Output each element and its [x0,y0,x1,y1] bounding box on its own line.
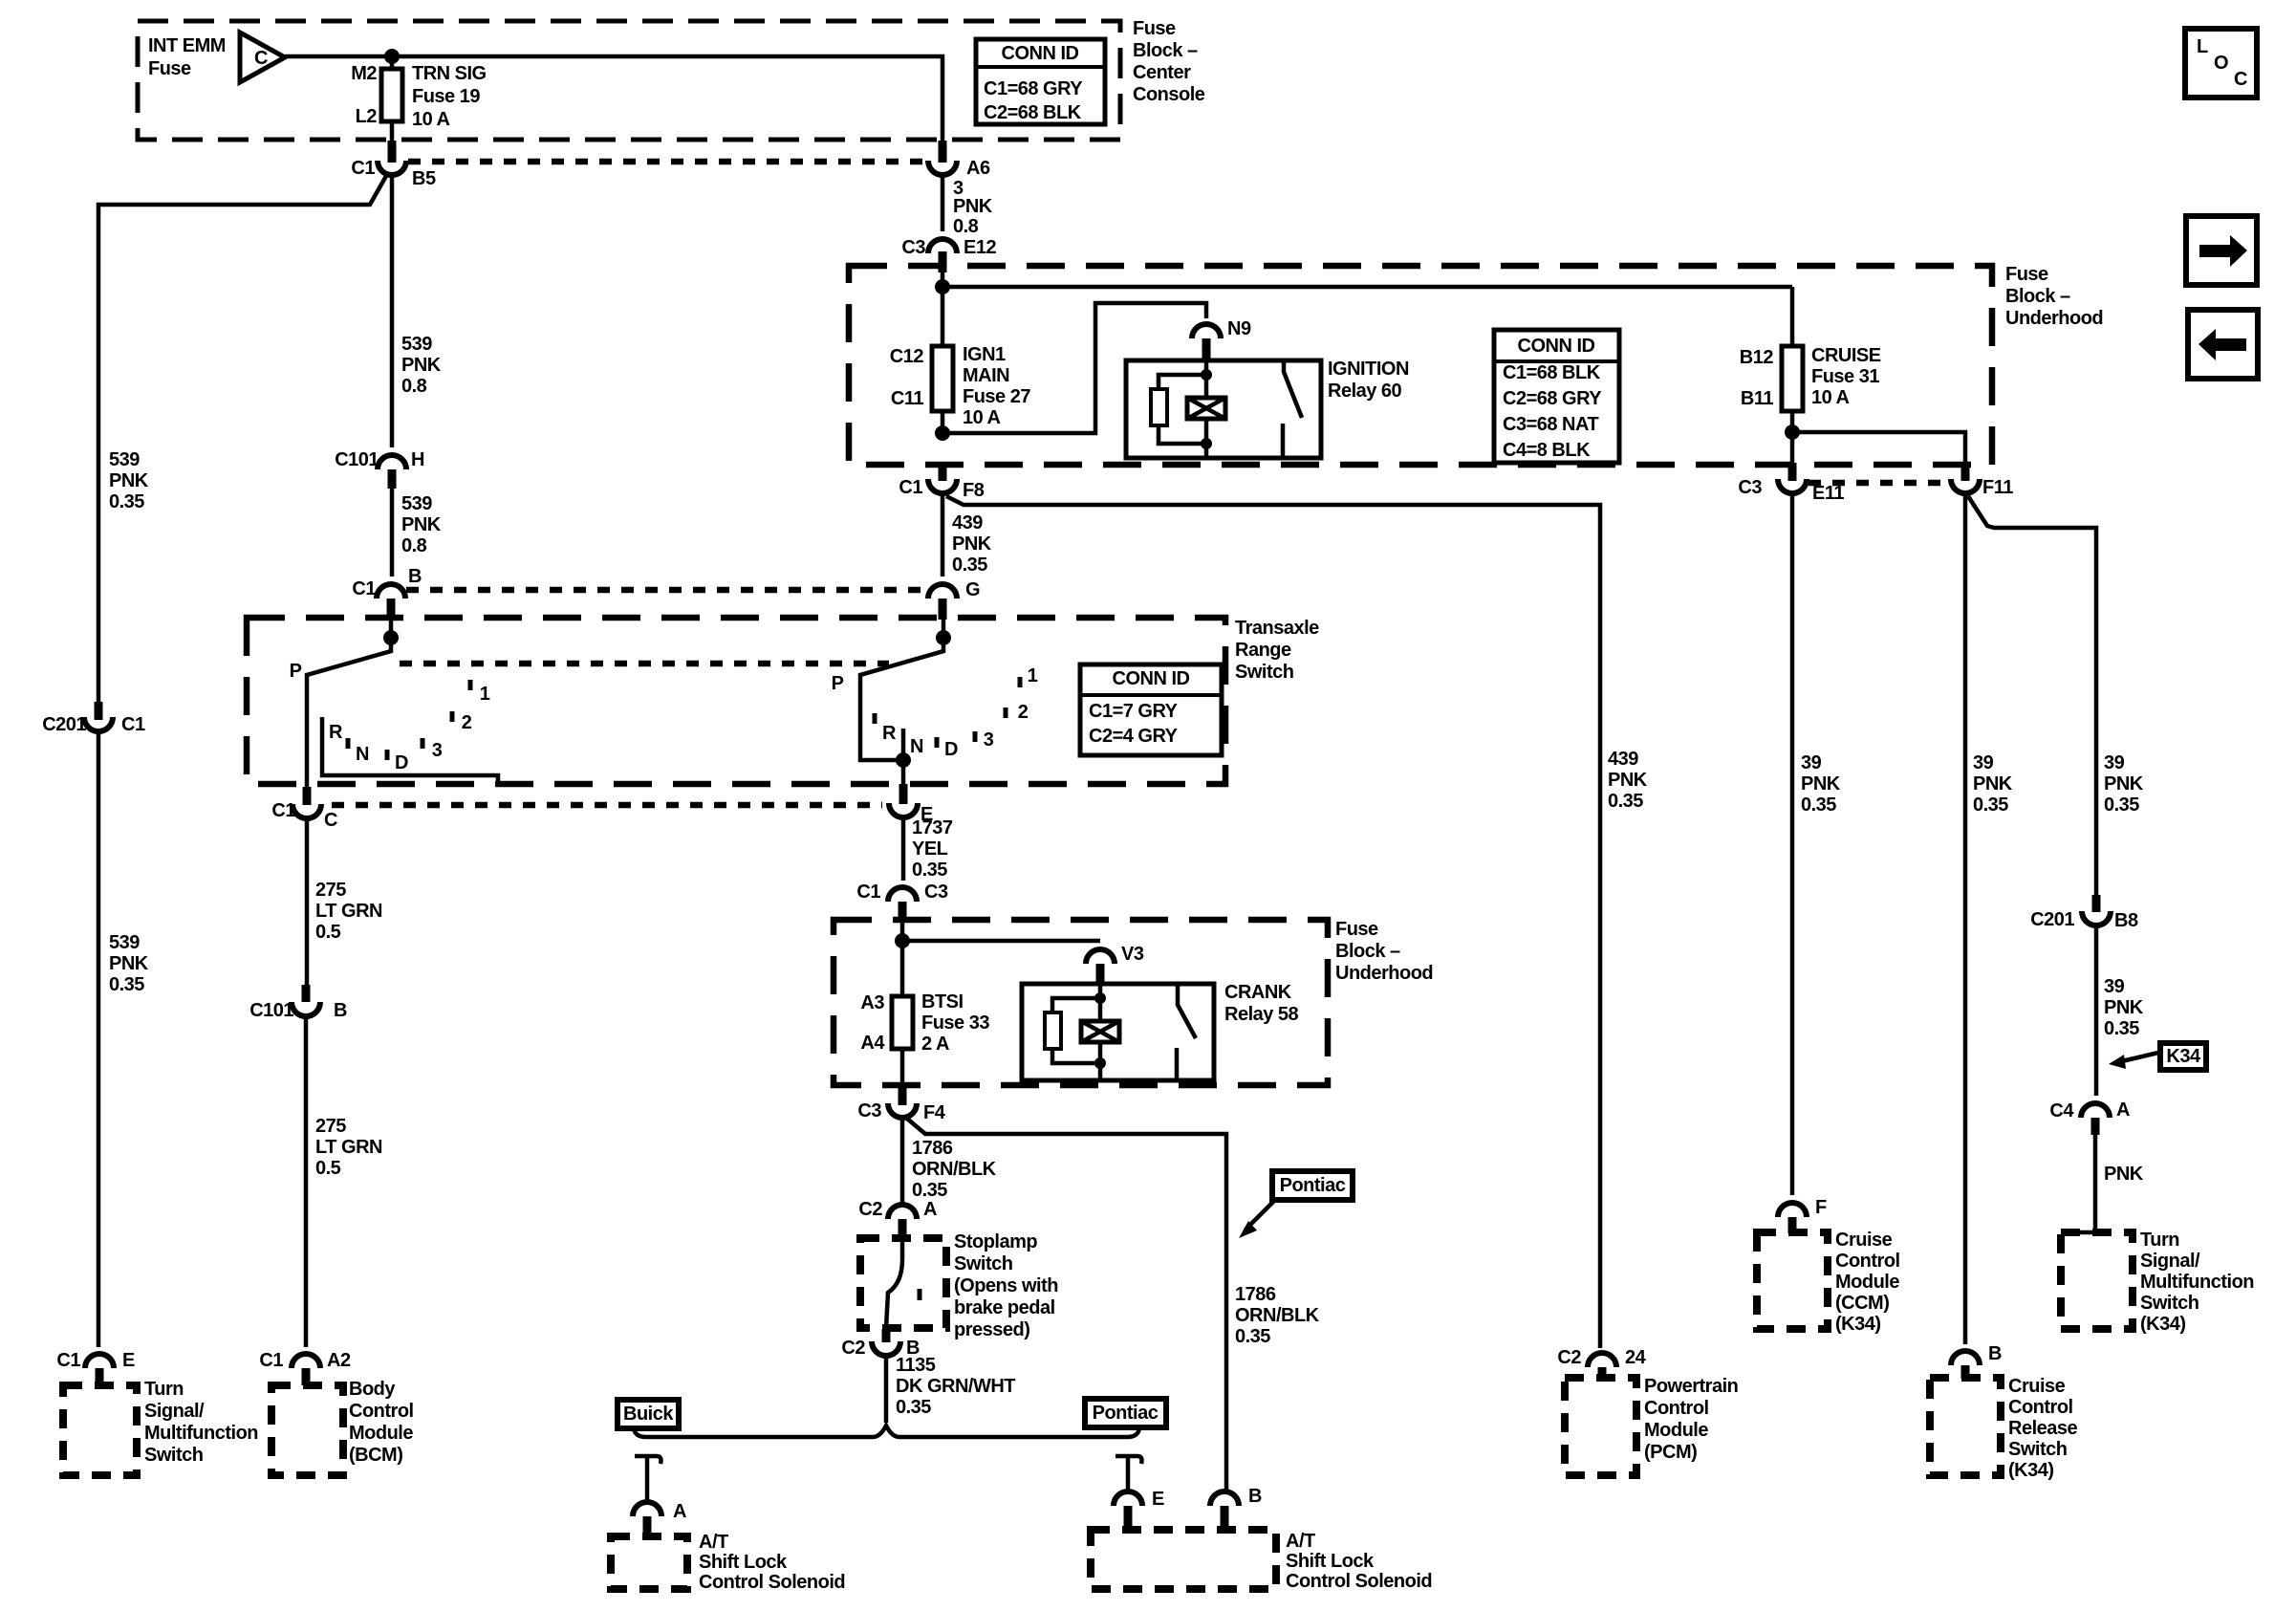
wire: F11 down to release switch [1963,494,1968,1344]
fuse F33 BTSI body [892,996,913,1049]
wire: B8 down to C4/A [2094,925,2099,1096]
svg-text:A: A [2116,1099,2130,1121]
svg-text:PNK: PNK [953,196,993,217]
svg-text:C101: C101 [335,449,379,470]
svg-text:PNK: PNK [401,514,442,535]
CONN ID table (transaxle) [1080,664,1222,755]
svg-text:PNK: PNK [2104,773,2144,795]
label: CRANK Relay 58 [1224,982,1299,1025]
svg-text:10 A: 10 A [412,109,450,130]
svg-text:0.5: 0.5 [315,1158,341,1179]
svg-text:LT GRN: LT GRN [315,1137,382,1158]
svg-text:brake pedal: brake pedal [954,1297,1055,1318]
svg-text:1135: 1135 [896,1355,936,1376]
svg-text:P: P [290,661,302,682]
svg-text:ORN/BLK: ORN/BLK [1235,1305,1320,1326]
svg-text:D: D [944,739,958,760]
svg-text:F4: F4 [923,1102,946,1123]
left switch pole wire [307,620,391,789]
stub below center console at A6 drop [939,141,947,163]
wire: stoplamp B down to brace [884,1356,889,1423]
stub at E11 [1788,463,1797,481]
svg-text:275: 275 [315,1116,346,1137]
right switch pole wire [860,620,943,760]
cruise control module box [1757,1232,1828,1329]
CONN ID table (underhood) [1494,330,1619,463]
svg-text:2: 2 [1018,702,1029,723]
cruise control release switch box [1930,1378,2001,1475]
wire: fuse 31 to F11 drop [1792,432,1965,474]
svg-text:539: 539 [109,449,140,470]
svg-text:0.35: 0.35 [1973,795,2008,816]
connector C1/B5 [378,161,406,175]
svg-text:0.35: 0.35 [896,1397,931,1418]
svg-text:N: N [356,744,369,765]
LOC reference box [2185,29,2257,98]
svg-text:B8: B8 [2114,910,2138,931]
wire: F11 branch to K34 turn signal [1968,496,2096,895]
connector C2/A (stoplamp) [888,1205,917,1219]
svg-text:Block –: Block – [2005,286,2070,307]
svg-text:Transaxle: Transaxle [1235,618,1319,639]
svg-text:(K34): (K34) [1835,1314,1881,1335]
svg-text:C3: C3 [857,1100,881,1121]
svg-text:K34: K34 [2166,1046,2201,1067]
svg-text:C1=7 GRY: C1=7 GRY [1089,701,1179,722]
relay 60 switch contact [1283,360,1302,458]
svg-text:L2: L2 [356,106,378,127]
A/T shift lock control solenoid box (Buick) [611,1536,687,1589]
turn signal/multifunction switch box [63,1385,137,1475]
right solenoid terminal bar [1116,1456,1142,1490]
wire label 1737 YEL 0.35 [912,817,953,881]
svg-text:IGN1: IGN1 [963,344,1006,365]
dotted link between switch poles [400,661,889,667]
svg-text:Module: Module [1644,1420,1708,1441]
svg-text:B: B [1248,1486,1262,1507]
svg-text:C1: C1 [121,714,145,735]
svg-text:Switch: Switch [2140,1293,2199,1314]
relay 60 resistor [1151,389,1167,425]
powertrain control module box [1565,1378,1636,1475]
connector C101/B [292,1002,320,1016]
stub into Pontiac solenoid E [1124,1506,1133,1530]
svg-text:C1: C1 [899,477,922,498]
svg-text:H: H [411,449,424,470]
svg-text:Buick: Buick [623,1404,674,1425]
wire label 39 PNK 0.35 (CCM) [1801,752,1841,816]
svg-text:C1: C1 [56,1350,80,1371]
wire label 275 LT GRN 0.5 (upper) [315,880,382,943]
wire: B5 branch to left column [98,176,386,703]
svg-text:Turn: Turn [144,1379,184,1400]
stub above E [899,784,908,804]
connector C3/E11 [1778,479,1807,493]
svg-text:39: 39 [1801,752,1822,773]
svg-text:Control: Control [1835,1251,1900,1272]
svg-text:B5: B5 [412,168,436,189]
stub below C1/B [387,599,396,620]
svg-text:C4: C4 [2049,1100,2074,1121]
Buick tag [617,1400,679,1428]
wire: fuse 27 to ignition relay coil feed [942,303,1206,433]
wire: C101/B down to BCM [304,1015,309,1347]
wire label 3 PNK 0.8 [953,178,993,237]
wire: E12 into block and across to cruise fuse [942,272,1792,346]
label: Stoplamp Switch [954,1231,1058,1340]
stub above C2/B [882,1329,891,1342]
svg-text:MAIN: MAIN [963,365,1009,386]
svg-text:0.35: 0.35 [1801,795,1836,816]
wire through fuse 19 [390,56,395,143]
svg-text:0.35: 0.35 [1235,1326,1270,1347]
junction node below fuse 27 [935,425,950,441]
svg-text:Switch: Switch [1235,662,1293,683]
svg-text:Control Solenoid: Control Solenoid [1286,1571,1432,1592]
stub at F8 [939,463,947,481]
svg-text:C3: C3 [1738,477,1762,498]
stub below C2/A [899,1219,907,1239]
wire label 39 PNK 0.35 (K34 upper) [2104,752,2144,816]
label: Body Control Module (BCM) [349,1379,414,1466]
svg-text:TRN SIG: TRN SIG [412,63,487,84]
svg-text:Fuse 19: Fuse 19 [412,86,480,107]
svg-text:A/T: A/T [699,1532,728,1553]
svg-text:C11: C11 [891,388,923,409]
svg-text:Cruise: Cruise [1835,1230,1893,1251]
connector V3 [1086,949,1115,964]
label: Transaxle Range Switch [1235,618,1319,683]
relay 60 coil symbol [1187,398,1225,419]
fuse F27 IGN1 MAIN body [932,346,953,411]
stub into Pontiac solenoid B [1221,1506,1229,1530]
connector G [928,584,957,599]
svg-text:0.35: 0.35 [912,1180,947,1201]
svg-text:1: 1 [1028,665,1038,686]
svg-text:E11: E11 [1812,483,1844,504]
svg-text:1786: 1786 [1235,1284,1276,1305]
svg-text:C1=68 BLK: C1=68 BLK [1503,362,1601,383]
stub into PCM [1598,1367,1607,1379]
svg-text:439: 439 [1608,749,1638,770]
svg-text:C2: C2 [1557,1347,1581,1368]
connector C201/C1 [84,717,113,731]
svg-text:CONN ID: CONN ID [1002,43,1079,64]
svg-text:Control: Control [349,1401,414,1422]
svg-text:L: L [2197,36,2208,57]
svg-text:1: 1 [480,684,490,705]
svg-text:F: F [1815,1197,1827,1218]
svg-text:Fuse: Fuse [1133,18,1176,39]
fuse block - underhood dashed box [849,266,1992,465]
svg-text:Underhood: Underhood [1335,963,1433,984]
relay 58 coil symbol [1081,1021,1119,1042]
wire label 275 LT GRN 0.5 (lower) [315,1116,382,1179]
svg-text:1786: 1786 [912,1138,953,1159]
stoplamp switch box [860,1238,946,1328]
svg-text:C3: C3 [901,237,925,258]
svg-text:Control: Control [1644,1398,1709,1419]
svg-text:CRANK: CRANK [1224,982,1292,1003]
svg-text:B11: B11 [1741,388,1773,409]
connector N9 [1192,324,1221,338]
svg-text:CONN ID: CONN ID [1518,336,1595,357]
Pontiac tag (bus) [1085,1399,1166,1427]
relay 58 coil wiring [1052,984,1100,1080]
stub into underhood fuse block [939,251,947,272]
connector C2/24 (PCM) [1588,1353,1616,1367]
svg-text:Relay 60: Relay 60 [1328,381,1402,402]
svg-text:YEL: YEL [912,838,948,860]
svg-text:PNK: PNK [109,470,149,491]
label: BTSI Fuse 33 2 A [921,991,989,1055]
left solenoid terminal bar [635,1456,661,1500]
svg-text:(K34): (K34) [2008,1460,2054,1481]
svg-text:R: R [329,722,343,743]
svg-text:Control Solenoid: Control Solenoid [699,1572,845,1593]
svg-text:C1: C1 [259,1350,283,1371]
stub above C1/C [303,787,312,805]
svg-text:C1: C1 [271,800,295,821]
wire: B5 down main vertical [390,177,395,447]
wire: C down to C101/B [305,817,310,986]
svg-text:39: 39 [2104,752,2125,773]
connector C1/C3 [888,887,917,902]
left arrow nav box [2188,310,2258,379]
svg-text:10 A: 10 A [1811,387,1850,408]
fuse block - center console dashed box [138,21,1120,140]
svg-text:C101: C101 [249,1000,293,1021]
svg-text:Fuse: Fuse [1335,919,1378,940]
wire label 1135 DK GRN/WHT 0.35 [896,1355,1015,1418]
svg-text:PNK: PNK [952,533,992,555]
stub at F4 [899,1086,907,1105]
svg-text:39: 39 [2104,976,2125,997]
stub above C201 [95,702,103,720]
svg-text:F11: F11 [1982,477,2013,498]
svg-text:PNK: PNK [1973,773,2013,795]
svg-text:Switch: Switch [144,1445,203,1466]
stub into BCM [302,1368,311,1385]
svg-text:A6: A6 [966,158,990,179]
wire: C201 to turn signal switch [97,732,101,1347]
wire into fuse 31 [1790,287,1795,474]
left switch R contact wire [322,717,498,785]
svg-text:B: B [408,566,422,587]
wire label 439 PNK 0.35 [952,512,992,576]
svg-text:C1=68 GRY: C1=68 GRY [984,78,1083,99]
stoplamp switch contact tick [918,1289,922,1300]
label: Powertrain Control Module (PCM) [1644,1376,1738,1463]
svg-text:F8: F8 [963,480,985,501]
junction node above fuse 19 [384,49,400,64]
svg-text:539: 539 [109,932,140,953]
connector C1/A2 (BCM) [292,1354,320,1368]
svg-text:DK GRN/WHT: DK GRN/WHT [896,1376,1015,1397]
svg-text:Signal/: Signal/ [2140,1251,2200,1272]
svg-text:3: 3 [984,729,994,751]
svg-text:Turn: Turn [2140,1230,2179,1251]
svg-text:275: 275 [315,880,346,901]
svg-text:Fuse: Fuse [148,58,191,79]
connector C3/E12 [928,239,957,253]
svg-text:Shift Lock: Shift Lock [699,1552,788,1573]
svg-text:C201: C201 [2030,909,2074,930]
svg-text:0.35: 0.35 [109,491,144,512]
wire label 539 PNK 0.8 (lower) [401,493,442,556]
svg-text:Signal/: Signal/ [144,1401,205,1422]
svg-text:(PCM): (PCM) [1644,1442,1697,1463]
connector C1/F8 [928,479,957,493]
stub above C201/B8 [2092,895,2101,912]
connector B (release switch) [1951,1351,1980,1365]
connector E (Pontiac solenoid) [1114,1491,1142,1506]
dotted interconnect E11 to F11 [1809,480,1950,487]
svg-text:C1: C1 [351,158,375,179]
wire label 539 PNK 0.35 (lower) [109,932,149,995]
svg-text:C4=8 BLK: C4=8 BLK [1503,440,1591,461]
svg-text:IGNITION: IGNITION [1328,359,1409,380]
svg-text:V3: V3 [1121,944,1144,965]
svg-text:Module: Module [349,1423,413,1444]
svg-text:P: P [832,673,844,694]
label: Cruise Control Module (CCM) (K34) [1835,1230,1900,1335]
svg-text:Stoplamp: Stoplamp [954,1231,1037,1252]
svg-text:N9: N9 [1227,318,1251,339]
transaxle range switch dashed box [247,618,1225,784]
svg-text:Switch: Switch [2008,1439,2067,1460]
svg-text:PNK: PNK [401,355,442,376]
left switch contact ticks [348,680,470,760]
junction node right switch [936,630,951,645]
svg-text:pressed): pressed) [954,1319,1029,1340]
svg-text:Switch: Switch [954,1253,1012,1274]
svg-text:A4: A4 [860,1033,885,1054]
svg-text:0.35: 0.35 [912,860,947,881]
connector F11 [1951,479,1980,493]
junction node BTSI feed [895,933,910,948]
fuse F31 CRUISE body [1782,346,1803,411]
svg-text:(CCM): (CCM) [1835,1293,1889,1314]
wire: E down to C1/C3 [901,817,906,881]
stub at B5 [388,141,397,163]
svg-text:E: E [1152,1489,1164,1510]
svg-text:39: 39 [1973,752,1994,773]
svg-text:B: B [334,1000,347,1021]
stub above C101/B [302,985,311,1002]
svg-text:0.8: 0.8 [953,216,979,237]
connector C101/H [378,455,406,469]
junction node below fuse 31 [1785,425,1800,440]
svg-text:Body: Body [349,1379,396,1400]
svg-text:Console: Console [1133,84,1205,105]
svg-text:C3: C3 [924,882,948,903]
svg-text:CONN ID: CONN ID [1113,668,1190,689]
connector C2/B (stoplamp out) [872,1341,900,1356]
svg-text:E: E [122,1350,135,1371]
stub at F11 [1961,463,1970,481]
connector C3/F4 [888,1103,917,1118]
connector E (transaxle) [889,803,918,817]
relay 60 coil wiring [1159,360,1206,458]
wire label 539 PNK 0.35 (upper) [109,449,149,512]
svg-text:Release: Release [2008,1418,2077,1439]
svg-text:Fuse 33: Fuse 33 [921,1012,989,1034]
svg-text:BTSI: BTSI [921,991,964,1012]
svg-text:1737: 1737 [912,817,953,838]
svg-text:A: A [923,1199,937,1220]
svg-text:C201: C201 [42,714,86,735]
connector C201/B8 [2082,911,2111,925]
stoplamp switch blade [886,1239,902,1328]
svg-text:Relay 58: Relay 58 [1224,1004,1299,1025]
CONN ID table (center console) [976,39,1105,124]
label: Turn Signal/Multifunction Switch [144,1379,258,1466]
K34 tag with arrow [2109,1043,2206,1070]
svg-text:PNK: PNK [1801,773,1841,795]
label: TRN SIG Fuse 19 10 A [412,63,487,130]
svg-text:D: D [395,752,408,773]
connector F (CCM) [1778,1203,1807,1217]
junction node left switch [383,630,399,645]
stub below N9 [1202,338,1211,361]
svg-text:PNK: PNK [2104,1164,2144,1185]
label: IGNITION Relay 60 [1328,359,1409,402]
svg-text:O: O [2214,53,2228,74]
svg-text:10 A: 10 A [963,407,1001,428]
wire: F8 down to G [941,494,945,577]
label: CRUISE Fuse 31 10 A [1811,345,1881,408]
wire label 439 PNK 0.35 (PCM) [1608,749,1648,812]
svg-text:Underhood: Underhood [2005,308,2103,329]
stub below C101/H [388,469,397,489]
svg-text:0.35: 0.35 [2104,795,2139,816]
svg-text:B12: B12 [1740,347,1774,368]
svg-text:2 A: 2 A [921,1034,949,1055]
connector C1/E (turn signal switch) [85,1354,114,1368]
dotted interconnect B5 to A6 [408,159,925,165]
svg-text:(BCM): (BCM) [349,1445,402,1466]
svg-text:PNK: PNK [2104,997,2144,1018]
svg-text:ORN/BLK: ORN/BLK [912,1159,997,1180]
svg-text:539: 539 [401,493,432,514]
right arrow nav box [2186,216,2257,285]
svg-text:Control: Control [2008,1397,2073,1418]
svg-text:Fuse: Fuse [2005,264,2048,285]
svg-text:Multifunction: Multifunction [144,1423,258,1444]
svg-text:PNK: PNK [1608,770,1648,791]
svg-text:A/T: A/T [1286,1531,1315,1552]
svg-text:C12: C12 [890,346,924,367]
svg-text:2: 2 [462,712,472,733]
svg-text:C2: C2 [841,1338,865,1359]
connector C1/B (transaxle range switch) [377,584,405,599]
svg-text:0.8: 0.8 [401,535,427,556]
svg-text:Center: Center [1133,62,1191,83]
label: A/T Shift Lock Control Solenoid (Pontiac) [1286,1531,1432,1592]
stub below V3 [1096,964,1105,985]
wire label 39 PNK 0.35 (K34 lower) [2104,976,2144,1039]
stub into CCM [1788,1217,1797,1233]
svg-text:E12: E12 [964,237,996,258]
svg-text:CRUISE: CRUISE [1811,345,1881,366]
svg-text:Cruise: Cruise [2008,1376,2066,1397]
body control module box [271,1385,343,1475]
svg-text:PNK: PNK [109,953,149,974]
svg-text:Pontiac: Pontiac [1280,1175,1346,1196]
dotted interconnect B to G [406,587,926,594]
label: A/T Shift Lock Control Solenoid (Buick) [699,1532,845,1593]
